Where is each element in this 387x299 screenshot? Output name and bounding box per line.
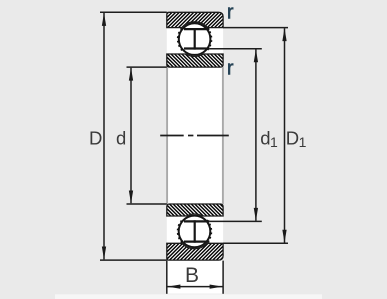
svg-text:d: d: [116, 128, 126, 149]
svg-text:r: r: [227, 58, 234, 80]
svg-text:D: D: [89, 128, 102, 149]
svg-text:r: r: [227, 1, 234, 23]
svg-text:B: B: [185, 264, 199, 287]
